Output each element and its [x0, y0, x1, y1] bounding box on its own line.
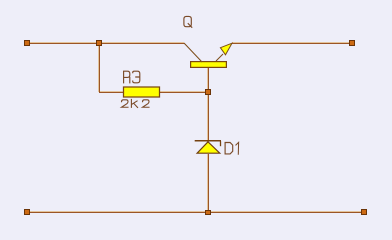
wire top-left rail — [27, 43, 184, 44]
transistor Q base bar — [191, 62, 227, 68]
node junction bottom (D1 anode to rail) — [205, 210, 211, 215]
transistor label Q — [184, 16, 192, 27]
zener D1 triangle — [197, 142, 220, 153]
wire R3 to node — [160, 92, 208, 93]
zener D1 cathode bar — [195, 140, 221, 142]
resistor R3 body — [124, 87, 160, 97]
terminal top-right — [349, 40, 355, 46]
diode label D1 — [225, 142, 239, 154]
wire left branch vertical + horizontal to R3 — [99, 43, 124, 93]
wire bottom rail — [28, 212, 364, 213]
wire top-right rail — [232, 43, 352, 44]
terminal top-left — [24, 40, 30, 46]
node junction top (left branch tap) — [96, 40, 102, 46]
zener D1 cathode bent tick — [220, 141, 222, 146]
transistor Q collector lead — [184, 43, 202, 62]
wire base of Q down to node — [208, 68, 209, 92]
wire D1 anode down to bottom rail — [208, 154, 209, 212]
wire node down to D1 cathode — [208, 92, 209, 140]
terminal bottom-right — [361, 209, 367, 215]
transistor Q emitter arrow — [220, 43, 232, 55]
resistor value 2k2 — [122, 99, 150, 107]
node junction mid (base / R3 / D1) — [205, 89, 211, 95]
resistor R3 label — [124, 71, 140, 83]
transistor Q emitter lead — [216, 54, 223, 61]
terminal bottom-left — [24, 209, 30, 215]
